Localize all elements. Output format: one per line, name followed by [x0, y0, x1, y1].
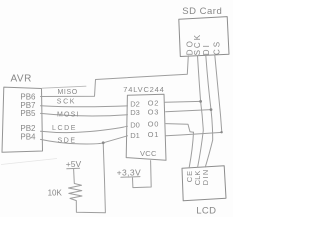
+5V supply bar: [67, 167, 80, 170]
wire O0 to CE line: [166, 124, 194, 133]
wire SD CS vertical: [215, 55, 222, 132]
svg-text:+5V: +5V: [66, 159, 82, 169]
svg-text:PB4: PB4: [20, 133, 36, 142]
wire SD SCK vertical: [198, 56, 204, 168]
resistor R1 10K pullup network: [69, 143, 106, 213]
wire O3 to DI line: [166, 110, 211, 112]
svg-text:10K: 10K: [48, 188, 63, 197]
svg-text:D0: D0: [130, 120, 140, 129]
wire O2 to SCK line: [165, 100, 200, 103]
wire LCDE net: [41, 126, 128, 132]
svg-text:SDE: SDE: [58, 138, 77, 145]
junction dot O2/SCK: [199, 100, 202, 103]
sketch overshoot of AVR box top edge: [42, 86, 86, 88]
wire SCK net: [41, 106, 128, 107]
svg-text:DI: DI: [202, 43, 211, 55]
svg-text:MISO: MISO: [58, 89, 78, 96]
wire O1 to CS line: [166, 132, 222, 135]
AVR U2 box: [2, 87, 43, 152]
wire MOSI net: [41, 113, 128, 116]
svg-text:DIN: DIN: [201, 168, 210, 185]
svg-text:D1: D1: [130, 131, 140, 140]
svg-text:D2: D2: [130, 99, 140, 108]
wire LCD CE vertical: [189, 132, 193, 167]
junction dot O1/CS: [220, 131, 222, 133]
svg-text:SD Card: SD Card: [182, 6, 222, 17]
wire SD DI vertical: [205, 56, 212, 168]
svg-text:SCK: SCK: [193, 33, 202, 55]
svg-text:AVR: AVR: [11, 74, 32, 85]
wire SDE net: [41, 136, 128, 144]
svg-text:O2: O2: [148, 99, 160, 108]
svg-text:O0: O0: [148, 119, 160, 128]
svg-text:74LVC244: 74LVC244: [123, 85, 164, 94]
svg-text:LCDE: LCDE: [52, 125, 77, 132]
svg-text:MOSI: MOSI: [57, 111, 80, 118]
svg-text:D3: D3: [130, 108, 140, 117]
svg-text:+3,3V: +3,3V: [117, 167, 141, 177]
LCD J2 box: [182, 166, 226, 201]
svg-text:O1: O1: [148, 130, 160, 139]
crease mark: [1, 159, 57, 165]
svg-text:SCK: SCK: [57, 99, 76, 106]
svg-text:O3: O3: [148, 108, 160, 117]
svg-text:PB5: PB5: [20, 109, 36, 118]
SD card J1 box: [179, 17, 229, 57]
svg-text:LCD: LCD: [196, 206, 216, 217]
wire VCC hook to +3.3V: [133, 161, 152, 188]
74LVC244 U1 box: [126, 94, 166, 160]
svg-text:VCC: VCC: [140, 149, 157, 158]
junction dot SDE/pullup: [102, 141, 105, 144]
+3.3V supply bar: [121, 176, 140, 179]
junction dot O3/DI: [210, 108, 213, 111]
wire MISO net: [41, 56, 189, 97]
svg-text:CS: CS: [213, 40, 222, 55]
